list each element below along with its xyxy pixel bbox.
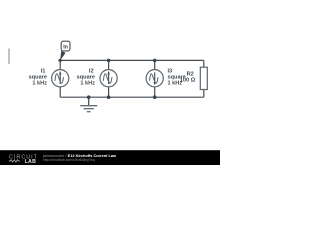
svg-text:1 kHz: 1 kHz [80,81,95,87]
ground [80,97,97,112]
wire bottom rail [60,96,204,98]
node In flag box [61,41,70,51]
wire I3 branch stubs [154,60,156,69]
node In diamond marker [58,58,62,62]
footer CircuitLab logo resistor zigzag [9,160,20,162]
svg-text:I3: I3 [168,68,173,74]
junction dot bottom I2 [107,95,111,99]
wire R2 branch stubs [203,60,205,67]
svg-text:LAB: LAB [25,159,37,165]
junction dot bottom ground [87,95,91,99]
svg-text:square: square [29,75,47,81]
svg-text:R2: R2 [187,71,194,77]
label I3 value [168,68,186,86]
wire I1 branch stubs [59,60,61,69]
current source I3 [146,70,163,87]
resistor R2 [200,67,207,89]
label I1 value [29,68,48,86]
junction dot bottom I3 [153,95,157,99]
svg-text:100 Ω: 100 Ω [180,78,196,84]
svg-text:1 kHz: 1 kHz [32,81,47,87]
svg-text:http://circuitlab.com/c5vx84kr: http://circuitlab.com/c5vx84krg7wq [43,158,95,162]
svg-text:square: square [77,75,95,81]
label I2 value [77,68,96,86]
wire cropped stub top-left [8,49,10,65]
junction dot top I2 [107,59,111,63]
label R2 value [180,71,196,83]
svg-text:I2: I2 [89,68,94,74]
svg-text:In: In [63,45,68,51]
wire top rail [60,59,204,61]
svg-text:I1: I1 [41,68,46,74]
wire I2 branch stubs [108,60,110,69]
current source I2 [100,70,117,87]
current source I1 [52,70,69,87]
junction dot top I3 [153,59,157,63]
node In flag pointer [60,51,65,61]
footer bar [0,150,220,165]
